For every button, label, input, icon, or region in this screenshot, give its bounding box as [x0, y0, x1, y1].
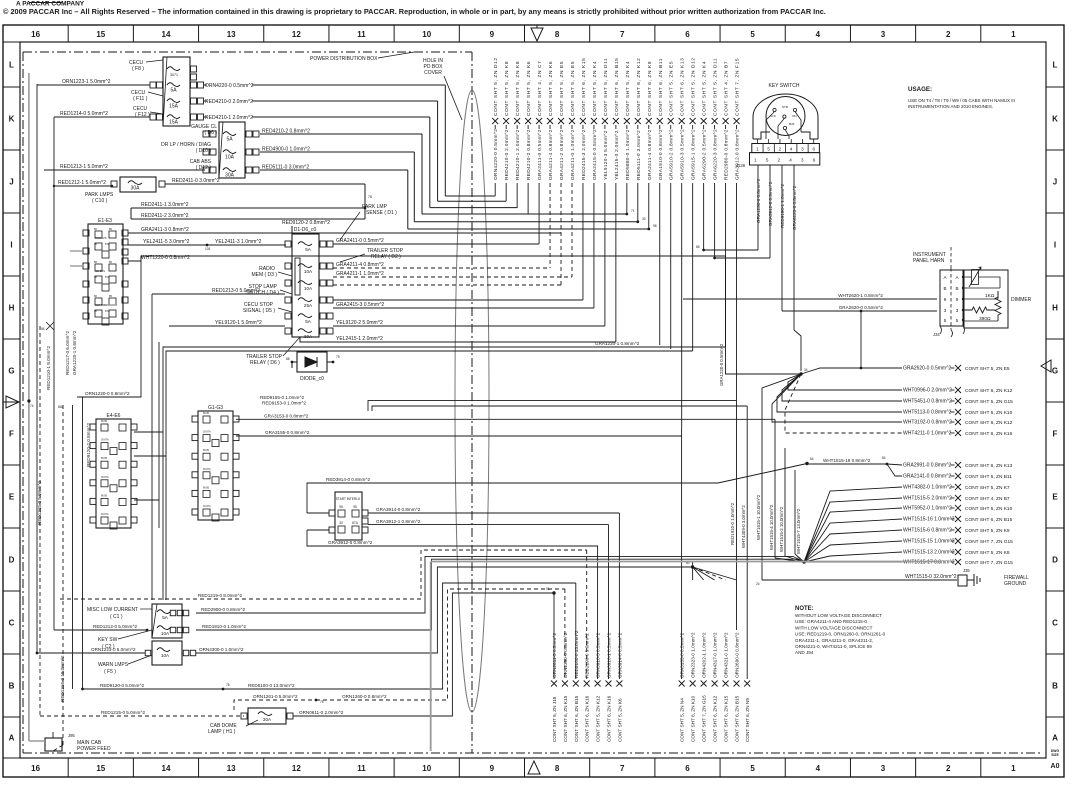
key switch contact STR [773, 108, 776, 111]
relay element 5A [298, 314, 312, 318]
svg-text:ORN1261-0 5.0mm^2: ORN1261-0 5.0mm^2 [253, 694, 298, 699]
row grid tick C left [3, 653, 20, 655]
svg-text:RED1214-0 5.0mm^2: RED1214-0 5.0mm^2 [60, 111, 108, 117]
instrument panel connector dash divider [950, 268, 952, 330]
fuse F11 15A [167, 99, 180, 103]
svg-text:CONT SHT 6, ZN B15: CONT SHT 6, ZN B15 [574, 695, 579, 742]
column grid tick 9|8 top [524, 25, 526, 42]
svg-text:1KΩ: 1KΩ [985, 293, 995, 299]
svg-text:ORN4220-0 0.5mm^2: ORN4220-0 0.5mm^2 [205, 83, 254, 89]
cont sht stub RED4210-1 2.0mm^2 X mark [514, 118, 520, 124]
svg-text:WHT1515-2 10.0mm^2: WHT1515-2 10.0mm^2 [779, 506, 784, 552]
connector E1-E3 pin left [83, 263, 89, 269]
svg-text:RED2190-0 5.0mm^2: RED2190-0 5.0mm^2 [585, 633, 590, 678]
svg-text:CONT SHT 6, ZN K10: CONT SHT 6, ZN K10 [691, 695, 696, 742]
svg-text:6: 6 [685, 764, 690, 773]
column grid tick 10|9 top [458, 25, 460, 42]
svg-text:CONT SHT 7, ZN G15: CONT SHT 7, ZN G15 [702, 695, 707, 742]
svg-text:CONT SHT 6, ZN N9: CONT SHT 6, ZN N9 [745, 698, 750, 742]
key switch pins to connector [756, 139, 758, 144]
svg-text:NOTE:: NOTE: [795, 606, 814, 612]
wire YEL2411-5 3.0mm^2 / YEL2411-3 1.0mm^2 [128, 244, 286, 246]
wire WHT2620-1 0.8mm^2 [683, 298, 937, 300]
wire GRA2415-3 0.5mm^2 [333, 307, 594, 309]
svg-text:3: 3 [801, 158, 804, 163]
svg-text:WITH LOW VOLTAGE DISCONNECT: WITH LOW VOLTAGE DISCONNECT [795, 625, 873, 630]
svg-text:CONT SHT 5, ZN G15: CONT SHT 5, ZN G15 [965, 399, 1013, 405]
svg-text:COVER: COVER [424, 70, 442, 76]
svg-text:GRA6220-0 0.8mm^2: GRA6220-0 0.8mm^2 [792, 185, 797, 230]
svg-text:USAGE:: USAGE: [908, 86, 932, 93]
wire RED1910-0 1.0mm^2 [196, 559, 804, 630]
svg-text:7: 7 [620, 764, 625, 773]
svg-text:YEL2415-0 2.0mm^2: YEL2415-0 2.0mm^2 [614, 130, 620, 180]
svg-text:15: 15 [96, 30, 105, 39]
svg-text:ORN4300-0 1.0mm^2: ORN4300-0 1.0mm^2 [199, 647, 244, 652]
svg-text:GRA3912-0 0.8mm^2: GRA3912-0 0.8mm^2 [735, 129, 741, 180]
connector E4-E6 cavity row [101, 443, 108, 450]
wire ORN1220-0 0.8mm^2 [77, 261, 141, 397]
cont sht stub GRA3912-0 0.8mm^2 X mark [734, 118, 740, 124]
wire GRA4211-1 1.0mm^2 dashed [333, 276, 572, 278]
connector E4-E6 pin right [131, 443, 137, 449]
svg-text:BAT: BAT [789, 122, 795, 126]
bottom column band [3, 757, 1046, 759]
svg-text:5: 5 [767, 147, 770, 152]
svg-text:CONT SHT 6, ZN K10: CONT SHT 6, ZN K10 [965, 506, 1013, 512]
relay pin left [285, 328, 291, 334]
svg-text:GRA3155-0 0.5mm^2: GRA3155-0 0.5mm^2 [680, 632, 685, 678]
svg-text:B: B [955, 286, 958, 291]
svg-text:RED2411-2 3.0mm^2: RED2411-2 3.0mm^2 [141, 213, 189, 219]
svg-text:12: 12 [292, 764, 301, 773]
svg-text:84: 84 [882, 456, 886, 460]
svg-text:RED2900-0 0.8mm^2: RED2900-0 0.8mm^2 [201, 607, 245, 612]
svg-text:ORN0611-0 2.0mm^2: ORN0611-0 2.0mm^2 [299, 710, 344, 715]
svg-text:CONT SHT 5, ZN K4: CONT SHT 5, ZN K4 [592, 61, 598, 116]
svg-text:RED3914-0 0.8mm^2: RED3914-0 0.8mm^2 [326, 477, 370, 482]
svg-text:RED4210-1 2.0mm^2: RED4210-1 2.0mm^2 [515, 129, 521, 180]
svg-text:D1-D6_c0: D1-D6_c0 [294, 227, 317, 233]
relay pin right [320, 263, 326, 269]
breaker C1 body [152, 604, 182, 638]
node 91 junction [552, 591, 555, 594]
wire WHT1515-0 32.0mm^2 gray bus horizontal [431, 561, 941, 563]
svg-text:30 87A: 30 87A [101, 439, 109, 442]
fuse bank 2 pin right [246, 131, 252, 137]
svg-text:RED1212-0 5.0mm^2: RED1212-0 5.0mm^2 [93, 624, 137, 629]
svg-text:WHT5113-0 0.8mm^2: WHT5113-0 0.8mm^2 [903, 410, 952, 416]
svg-text:RED1219-0 8.0mm^2: RED1219-0 8.0mm^2 [198, 593, 242, 598]
svg-text:GRA1230-0 0.8mm^2: GRA1230-0 0.8mm^2 [756, 178, 761, 223]
wire ORN4220-0 0.5mm^2 staircase down [444, 85, 446, 196]
bottom cont stub2 CONT SHT 6, ZN N9 X mark [744, 681, 750, 687]
svg-text:12: 12 [292, 30, 301, 39]
connector E1-E3 pin right [122, 297, 128, 303]
svg-text:RELAY ( D6 ): RELAY ( D6 ) [250, 360, 280, 366]
main cab feed vertical [52, 732, 54, 738]
wire RED4210-0 2.0mm^2 from fuse [204, 100, 207, 102]
fuse bank 2 pin left [210, 167, 216, 173]
relay pin right [320, 328, 326, 334]
connector G1-G3 cavity row [203, 416, 210, 423]
svg-text:GRA3912-0 0.5mm^2: GRA3912-0 0.5mm^2 [768, 181, 773, 226]
fuse D10 10A [223, 150, 236, 154]
svg-text:PANEL HARN: PANEL HARN [913, 258, 945, 264]
cont sht stub YEL9120-3 5.0mm^2 vertical wire [604, 125, 606, 129]
connector E4-E6 pin right [131, 498, 137, 504]
diode node 88 [291, 361, 294, 364]
svg-text:ORN1220-0 0.8mm^2: ORN1220-0 0.8mm^2 [85, 391, 130, 396]
svg-text:CONT SHT 6, ZN B15: CONT SHT 6, ZN B15 [735, 695, 740, 742]
svg-text:RED9120-2 0.8mm^2: RED9120-2 0.8mm^2 [86, 423, 91, 467]
connector E4-E6 cavity row [101, 480, 108, 487]
svg-text:76: 76 [368, 195, 372, 199]
cont sht stub YEL2415-0 2.0mm^2 X mark [613, 118, 619, 124]
connector E4-E6 pin left [90, 498, 96, 504]
svg-text:CONT SHT 6, ZN K16: CONT SHT 6, ZN K16 [607, 695, 612, 742]
svg-text:3: 3 [801, 147, 804, 152]
svg-text:75: 75 [320, 700, 324, 704]
column grid tick 2|1 top [980, 25, 982, 42]
wire RED4900-0 1.0mm^2 from fuse [260, 151, 414, 153]
svg-text:WHT4211-0 1.0mm^2: WHT4211-0 1.0mm^2 [903, 431, 952, 437]
wire YEL2415-1 2.0mm^2 [300, 337, 616, 342]
svg-text:CONT SHT 5, ZN K6: CONT SHT 5, ZN K6 [548, 61, 554, 116]
relay pin right [320, 297, 326, 303]
svg-text:D: D [9, 556, 15, 565]
diode DIODE_c0 body [297, 352, 327, 372]
svg-text:9: 9 [490, 30, 495, 39]
column grid tick 4|3 top [849, 25, 851, 42]
svg-text:CONT SHT 5, ZN E5: CONT SHT 5, ZN E5 [965, 366, 1010, 372]
svg-text:A: A [9, 734, 15, 743]
svg-text:5A: 5A [170, 88, 177, 94]
cont sht stub RED4210-2 0.8mm^2 X mark [525, 118, 531, 124]
cont sht stub GRA2411-4 0.8mm^2 X mark [646, 118, 652, 124]
dimmer box [964, 270, 1008, 328]
svg-text:8: 8 [555, 30, 560, 39]
svg-text:30A: 30A [225, 173, 235, 179]
svg-text:CONT SHT 5, ZN K6: CONT SHT 5, ZN K6 [526, 61, 532, 116]
svg-text:ORN1260-0 0.8mm^2: ORN1260-0 0.8mm^2 [342, 694, 387, 699]
svg-text:30 87A: 30 87A [101, 476, 109, 479]
svg-text:GRA4211-1 1.0mm^2: GRA4211-1 1.0mm^2 [336, 271, 384, 277]
wire gray bus corner down [430, 562, 432, 752]
connector E4-E6 pin left [90, 461, 96, 467]
svg-text:13: 13 [227, 764, 236, 773]
svg-text:B: B [9, 682, 15, 691]
power distribution box phantom border bottom [23, 752, 1040, 754]
svg-text:3: 3 [956, 308, 959, 313]
wire ORN4220-0 0.5mm^2 from fuse [204, 84, 207, 86]
svg-text:30 87A: 30 87A [203, 431, 211, 434]
svg-text:© 2009 PACCAR Inc – All Rights: © 2009 PACCAR Inc – All Rights Reserved … [3, 7, 826, 16]
instrument panel harness boundary dash [950, 247, 952, 268]
svg-text:A0: A0 [1051, 763, 1060, 770]
svg-text:30A: 30A [263, 717, 272, 722]
connector G1-G3 pin right [233, 509, 239, 515]
fuse C10 pins [111, 181, 117, 187]
svg-text:F: F [1053, 430, 1058, 439]
svg-text:30A: 30A [304, 334, 313, 339]
wire left vertical x37 [36, 84, 38, 653]
key switch connector row 1 [752, 144, 820, 153]
cont sht stub RED5880-0 1.0mm^2 X mark [624, 118, 630, 124]
connector E1-E3 pin right [122, 313, 128, 319]
svg-text:G1-G3: G1-G3 [208, 405, 223, 411]
svg-text:GRA2411-4 0.8mm^2: GRA2411-4 0.8mm^2 [647, 129, 653, 180]
svg-text:USE: GRA4211-4 AND RED1215-: USE: GRA4211-4 AND RED1215-0 [795, 619, 867, 624]
relay pin right [320, 313, 326, 319]
svg-text:( F11 ): ( F11 ) [133, 96, 148, 102]
wire RED1213-1 5.0mm^2 [44, 169, 205, 171]
splice 84 fan wires [804, 487, 902, 562]
svg-text:WHT1515-1 10.0mm^2: WHT1515-1 10.0mm^2 [756, 494, 761, 540]
wire GRA2620-0 vertical [860, 311, 862, 368]
connector G1-G3 cavity row [203, 435, 210, 442]
connector E1-E3 pin left [83, 230, 89, 236]
wire RED9155-0 1.0mm^2 [368, 401, 737, 411]
svg-text:GRA2411-0 0.5mm^2: GRA2411-0 0.5mm^2 [336, 238, 384, 244]
wire left vertical x54 [53, 117, 55, 630]
svg-text:85: 85 [696, 245, 700, 249]
cont sht stub GRA1910-0 0.8mm^2 vertical wire [659, 125, 661, 129]
connector G1-G3 pin right [233, 416, 239, 422]
svg-text:CONT SHT 6, ZN B11: CONT SHT 6, ZN B11 [965, 474, 1012, 480]
connector E1-E3 pin left [83, 248, 89, 254]
svg-text:GRA3914-0 0.5mm^2: GRA3914-0 0.5mm^2 [617, 632, 622, 678]
svg-text:RED1213-1 5.0mm^2: RED1213-1 5.0mm^2 [60, 164, 108, 170]
wire ORN4220-0 0.5mm^2 run to column [445, 195, 495, 197]
svg-text:I: I [1054, 241, 1056, 250]
wire RED5111-0 3.0mm^2 from fuse [260, 169, 408, 171]
cont sht stub GRA4211-2 0.8mm^2 X mark [558, 118, 564, 124]
svg-text:RED9155-0 1.0mm^2: RED9155-0 1.0mm^2 [260, 395, 304, 400]
cont sht stub YEL9120-3 5.0mm^2 X mark [602, 118, 608, 124]
svg-text:H: H [1052, 304, 1058, 313]
svg-text:CONT SHT 5, ZN D12: CONT SHT 5, ZN D12 [691, 57, 697, 116]
row grid tick D left [3, 590, 20, 592]
svg-text:YEL9120-2 5.0mm^2: YEL9120-2 5.0mm^2 [336, 320, 383, 326]
wire GRA1220-1 0.8mm^2 run [163, 347, 726, 600]
bottom cont stub ORN2611-5 0.5mm^2 X mark [551, 681, 557, 687]
svg-text:I: I [10, 241, 12, 250]
wire RED3914 diagonal feed to splice 64 [718, 464, 807, 484]
svg-text:CONT SHT 6, ZN K13: CONT SHT 6, ZN K13 [965, 463, 1013, 469]
cont sht stub GRA4211-4 0.8mm^2 vertical wire [549, 125, 551, 129]
svg-text:CONT SHT 5, ZN E5: CONT SHT 5, ZN E5 [669, 61, 675, 116]
cont sht stub GRA3912-0 0.8mm^2 vertical wire [736, 125, 738, 129]
column grid tick 15|14 top [132, 25, 134, 42]
breaker C2/F5 body [152, 641, 182, 665]
svg-text:( C10 ): ( C10 ) [92, 198, 108, 204]
svg-text:4: 4 [816, 764, 821, 773]
svg-text:30: 30 [339, 521, 343, 525]
svg-text:WHT1220-0 0.8mm^2: WHT1220-0 0.8mm^2 [141, 255, 190, 261]
svg-text:91: 91 [546, 587, 550, 591]
svg-text:24: 24 [756, 582, 760, 586]
svg-text:5: 5 [956, 318, 959, 323]
splice 80 fan to CONT SHT 6, ZN B15 [693, 567, 737, 580]
svg-text:ORN1223-1 5.0mm^2: ORN1223-1 5.0mm^2 [62, 79, 111, 85]
relay pin left [285, 297, 291, 303]
svg-text:GRA2415-3 0.5mm^2: GRA2415-3 0.5mm^2 [336, 302, 384, 308]
connector E1-E3 body [88, 224, 123, 324]
breaker C1 10A [157, 626, 170, 630]
svg-text:5: 5 [750, 30, 755, 39]
wire RED9190-1 1.0mm^2 from key switch [781, 165, 783, 311]
wire RED2900-0 0.8mm^2 [196, 556, 804, 613]
wire x166 run [166, 351, 693, 600]
fuse bank left pins [157, 82, 163, 88]
column grid tick 8|7 top [589, 25, 591, 42]
svg-text:CONT SHT 6, ZN K16: CONT SHT 6, ZN K16 [585, 695, 590, 742]
splice 80 fan to CONT SHT 6, ZN K10 [692, 567, 694, 580]
connector E4-E6 body [96, 419, 131, 528]
svg-text:ORN4321-0 1.0mm^2: ORN4321-0 1.0mm^2 [724, 632, 729, 678]
wire left vertical x82 [82, 397, 84, 689]
svg-text:GRA3912-1 0.8mm^2: GRA3912-1 0.8mm^2 [376, 519, 421, 524]
svg-text:GRA3155-0 0.8mm^2: GRA3155-0 0.8mm^2 [265, 430, 310, 435]
svg-text:GRA2620-0 0.5mm^2: GRA2620-0 0.5mm^2 [903, 366, 951, 372]
svg-text:1: 1 [1011, 764, 1016, 773]
svg-text:RED1210-1 8.0mm^2: RED1210-1 8.0mm^2 [46, 346, 51, 390]
fuse C10 PARK LMPS body [120, 177, 156, 192]
svg-text:WHT1515-6 0.8mm^2: WHT1515-6 0.8mm^2 [903, 528, 952, 534]
cont sht stub GRA5915-1 0.8mm^2 X mark [690, 118, 696, 124]
svg-text:4: 4 [816, 30, 821, 39]
svg-text:CONT SHT 6, ZN K13: CONT SHT 6, ZN K13 [680, 58, 686, 116]
connector E4-E6 pin left [90, 443, 96, 449]
svg-text:GRA6220-3 0.8mm^2: GRA6220-3 0.8mm^2 [713, 129, 719, 180]
svg-text:LAMP ( H1 ): LAMP ( H1 ) [208, 729, 236, 735]
bottom cont stub RED2190-0 5.0mm^2 X mark [584, 681, 590, 687]
svg-text:YEL9120-1 5.0mm^2: YEL9120-1 5.0mm^2 [215, 320, 262, 326]
splice 34 fan to GRA2620 row [801, 368, 861, 374]
svg-text:CONT SHT 6, ZN K12: CONT SHT 6, ZN K12 [965, 388, 1013, 394]
cont sht stub RED4210-0 2.0mm^2 vertical wire [505, 125, 507, 129]
svg-text:( D6 ): ( D6 ) [205, 130, 218, 136]
svg-text:SIZE: SIZE [1051, 753, 1059, 757]
svg-text:KEY SWITCH: KEY SWITCH [768, 83, 799, 89]
splice 80 fan to CONT SHT 7, ZN G15 [693, 567, 704, 580]
svg-text:25A: 25A [304, 303, 313, 308]
svg-text:9: 9 [944, 297, 947, 302]
wire WHT1515-18 0.8mm^2 [807, 463, 887, 465]
svg-text:( F5 ): ( F5 ) [104, 669, 116, 675]
svg-text:98: 98 [653, 224, 657, 228]
fuse H1 CAB DOME LAMP body [248, 708, 286, 724]
instrument panel connector right half [951, 270, 963, 326]
registration arrow left [6, 396, 19, 408]
svg-text:10A: 10A [304, 269, 313, 274]
connector E1-E3 pin right [122, 230, 128, 236]
wire RED5100-0 13.0mm^2 [223, 583, 576, 689]
svg-text:RED1217-0 6.0mm^2: RED1217-0 6.0mm^2 [65, 331, 70, 375]
svg-text:6: 6 [813, 158, 816, 163]
svg-text:J: J [9, 178, 13, 187]
svg-text:84: 84 [41, 327, 45, 331]
svg-text:D: D [1052, 556, 1058, 565]
column grid tick 11|10 top [393, 25, 395, 42]
svg-text:AND J94: AND J94 [795, 650, 814, 655]
dimmer potentiometer top [972, 270, 979, 285]
fuse bank 2 pin right [246, 167, 252, 173]
wire RED4900-0 1.0mm^2 run to column [414, 221, 638, 223]
svg-text:( D10 ): ( D10 ) [196, 148, 212, 154]
connector E4-E6 pin right [131, 424, 137, 430]
connector G1-G3 pin left [192, 509, 198, 515]
wire left vertical x72 [72, 405, 74, 689]
svg-text:YEL2411-3 1.0mm^2: YEL2411-3 1.0mm^2 [215, 239, 262, 245]
svg-text:CONT SHT 6, ZN K10: CONT SHT 6, ZN K10 [965, 410, 1013, 416]
svg-text:GRA3910-3 0.5mm^2: GRA3910-3 0.5mm^2 [596, 632, 601, 678]
row grid tick H left [3, 338, 20, 340]
svg-text:GRA5910-3 0.5mm^2: GRA5910-3 0.5mm^2 [680, 129, 686, 180]
fuse bank D6/D10/D12 body [219, 122, 245, 178]
svg-text:GRA2141-0 0.8mm^2: GRA2141-0 0.8mm^2 [903, 474, 951, 480]
relay block D1-D6 body [292, 234, 319, 337]
svg-text:ORN4317-0 1.0mm^2: ORN4317-0 1.0mm^2 [713, 632, 718, 678]
stub E4-E6 pin to riser 2 [134, 455, 166, 457]
svg-text:YEL2411-5 3.0mm^2: YEL2411-5 3.0mm^2 [143, 239, 190, 245]
svg-text:64: 64 [810, 457, 814, 461]
wire WHT1515-2 10.0mm^2 vertical [784, 448, 786, 556]
connector E4-E6 cavity row [101, 424, 108, 431]
node 76 junction [364, 184, 366, 219]
wire RED3914-0 0.8mm^2 [307, 483, 718, 513]
svg-text:CONT SHT 5, ZN K7: CONT SHT 5, ZN K7 [965, 485, 1010, 491]
wire RED1215-0 5.0mm^2 dashed [40, 715, 244, 717]
svg-text:CONT SHT 5, ZN N4: CONT SHT 5, ZN N4 [680, 698, 685, 742]
splice node 80 bottom [691, 565, 694, 568]
column grid tick 12|11 top [328, 25, 330, 42]
connector E1-E3 pin right [122, 249, 128, 255]
svg-text:ORN2390-0 0.8mm^2: ORN2390-0 0.8mm^2 [563, 632, 568, 678]
svg-text:13: 13 [227, 30, 236, 39]
svg-text:WHT1515-13 2.0mm^2: WHT1515-13 2.0mm^2 [903, 550, 955, 556]
svg-text:MEM ( D3 ): MEM ( D3 ) [251, 272, 277, 278]
fuse H1 30A [258, 712, 272, 716]
wire GRA3155-0 vertical long drop [681, 428, 683, 679]
connector G1-G3 cavity row [203, 472, 210, 479]
svg-text:103: 103 [205, 247, 211, 251]
svg-text:86 85: 86 85 [101, 494, 108, 497]
fuse H1 pins [241, 713, 247, 719]
svg-text:GRA1910-0 0.8mm^2: GRA1910-0 0.8mm^2 [658, 129, 664, 180]
connector G1-G3 pin left [192, 490, 198, 496]
cont sht stub GRA6220-3 0.8mm^2 X mark [712, 118, 718, 124]
svg-text:15A: 15A [169, 104, 179, 110]
wire x152 vertical [151, 294, 153, 600]
svg-text:RED1215-0 5.0mm^2: RED1215-0 5.0mm^2 [37, 481, 42, 525]
svg-text:WHT4309-0 3.0mm^2: WHT4309-0 3.0mm^2 [741, 505, 746, 548]
svg-text:RED9190-1 1.0mm^2: RED9190-1 1.0mm^2 [780, 184, 785, 228]
svg-text:CONT SHT 6, ZN K9: CONT SHT 6, ZN K9 [647, 61, 653, 116]
svg-text:GRA2411-3 0.8mm^2: GRA2411-3 0.8mm^2 [141, 227, 189, 233]
svg-text:5: 5 [944, 318, 947, 323]
column grid tick 3|2 top [915, 25, 917, 42]
svg-text:2: 2 [946, 30, 951, 39]
svg-text:RED1213-0 5.0mm^2: RED1213-0 5.0mm^2 [212, 288, 260, 294]
svg-text:CONT SHT 5, ZN D11: CONT SHT 5, ZN D11 [713, 58, 719, 116]
svg-text:CONT SHT 6, ZN K12: CONT SHT 6, ZN K12 [636, 58, 642, 116]
svg-text:CONT SHT 5, ZN K8: CONT SHT 5, ZN K8 [965, 550, 1010, 556]
bottom cont stub2 CONT SHT 7, ZN G15 X mark [701, 681, 707, 687]
bottom cont stub GRA3914-0 0.5mm^2 X mark [616, 681, 622, 687]
svg-text:E: E [1052, 493, 1058, 502]
